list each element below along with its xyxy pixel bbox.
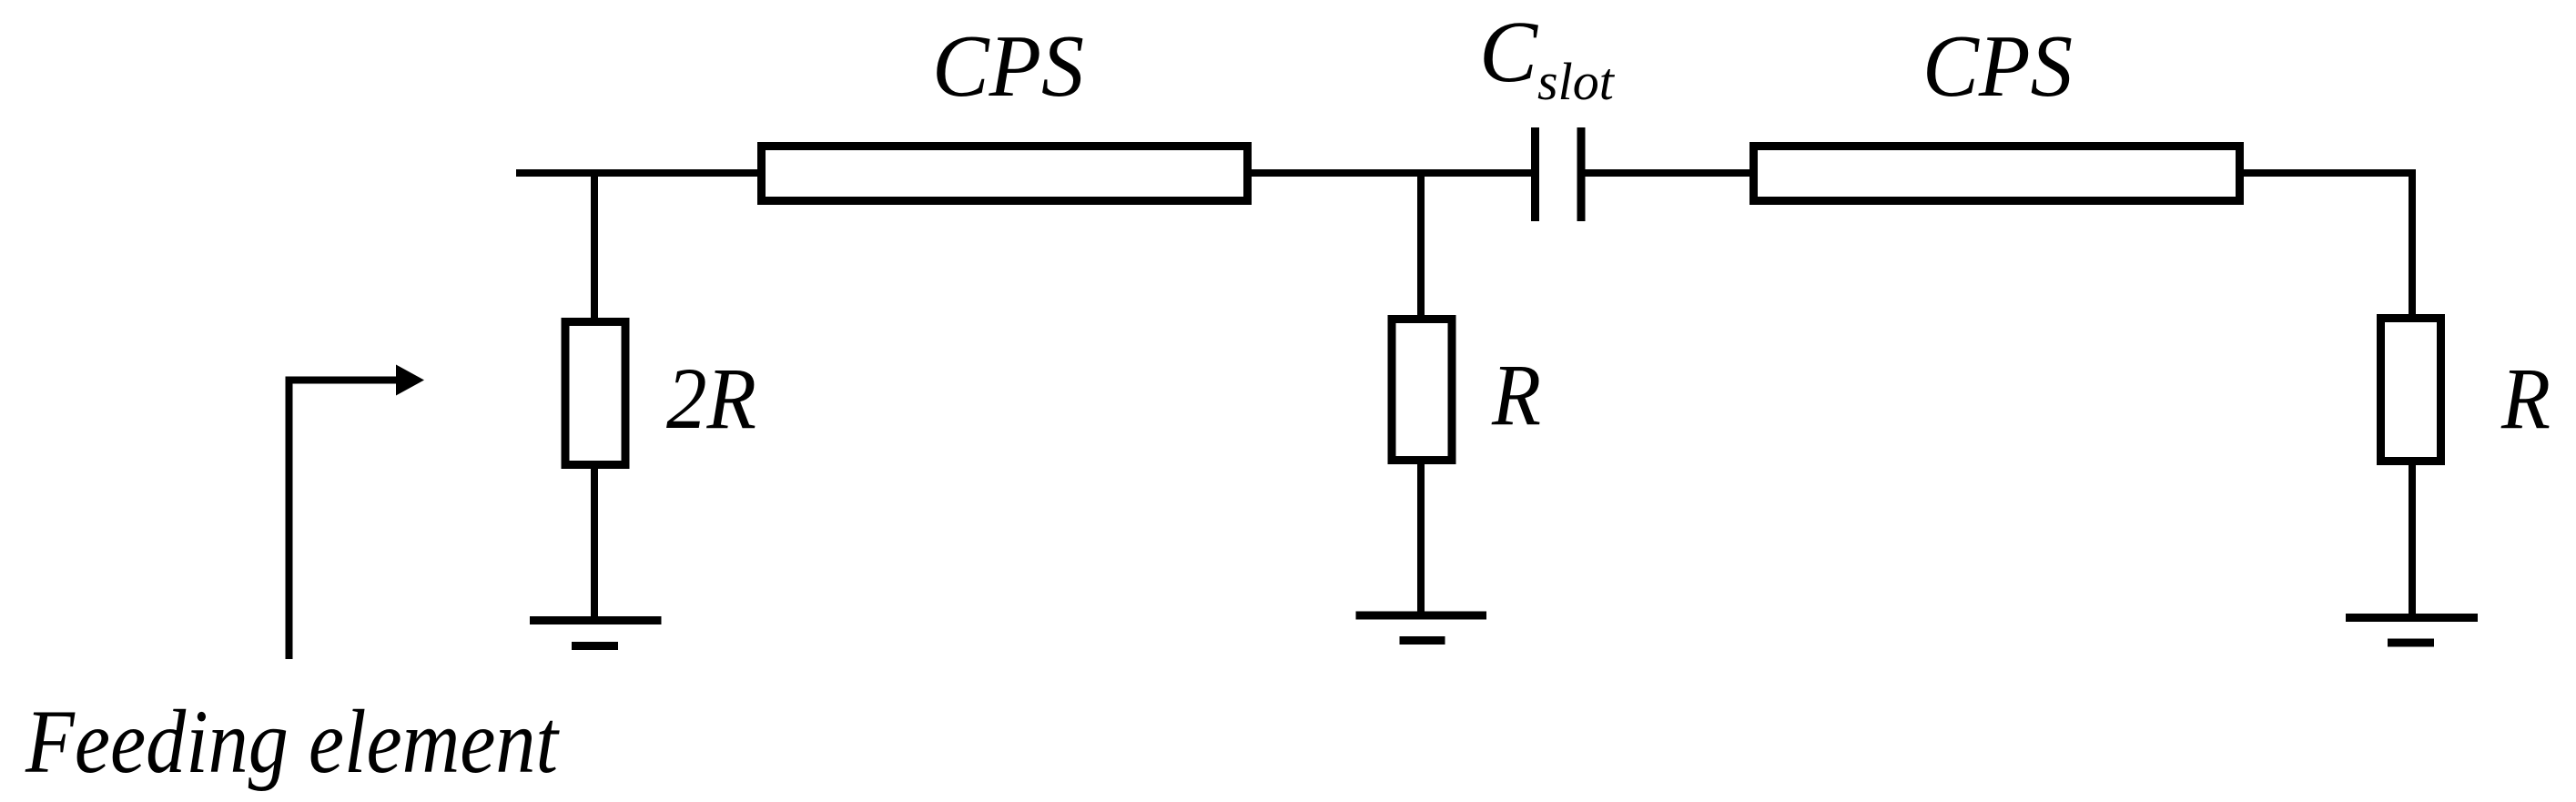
svg-text:Feeding element: Feeding element — [25, 691, 560, 792]
svg-text:CPS: CPS — [932, 17, 1084, 116]
svg-text:R: R — [1491, 346, 1541, 443]
svg-text:CPS: CPS — [1922, 17, 2073, 116]
svg-text:2R: 2R — [666, 350, 756, 447]
svg-text:R: R — [2500, 350, 2551, 447]
